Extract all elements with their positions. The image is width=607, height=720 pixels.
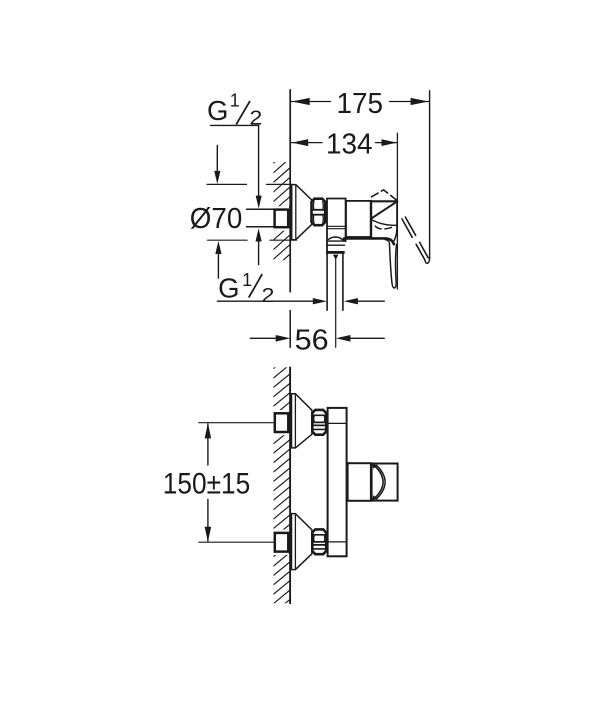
upper inlet square fitting: [275, 413, 289, 432]
white margin around inlet square: [273, 206, 289, 231]
dimension 56: [250, 337, 277, 339]
dashed cap (raised position): [372, 190, 399, 201]
wall hatching (bottom view): [273, 354, 292, 632]
cartridge column (body section behind main body): [326, 199, 328, 254]
handle cap (solid, lever down): [371, 200, 397, 202]
upper escutcheon cone: [292, 394, 312, 448]
dimension 150±15 arrows: [207, 424, 209, 465]
dimension 134: [291, 142, 322, 144]
svg-text:Ø70: Ø70: [190, 203, 243, 235]
label G1/2 (lower, shower outlet thread) leader with arrow: [217, 300, 313, 302]
lower escutcheon cone: [292, 514, 312, 570]
upper hex nut: [312, 410, 326, 435]
outlet dome transition: [328, 237, 344, 241]
white margins around inlet squares (bottom view): [273, 410, 289, 435]
wall face line / extension line for 175,134,56: [289, 90, 291, 292]
lower inlet square fitting: [275, 533, 289, 552]
dashed blade tip hook: [425, 258, 430, 263]
dimension 150±15 extension lines: [199, 422, 274, 424]
main body (top view): [346, 201, 371, 237]
outlet flange: [327, 240, 345, 242]
svg-text:56: 56: [295, 324, 329, 356]
escutcheon cone (top view): [292, 185, 312, 240]
svg-text:150±15: 150±15: [163, 468, 251, 501]
svg-text:G: G: [207, 95, 228, 126]
opposing arrow at outlet pipe right wall: [356, 300, 384, 302]
G1/2 supply dimension arrow (up, under pipe): [258, 240, 260, 265]
wall face line (bottom view): [289, 367, 291, 603]
inlet square fitting on wall: [275, 210, 289, 228]
svg-text:2: 2: [262, 284, 275, 307]
svg-text:134: 134: [326, 128, 373, 160]
lever neck (solid): [394, 225, 397, 240]
svg-text:2: 2: [249, 107, 262, 130]
dashed lever blade (raised position): [402, 219, 425, 260]
label Ø70 extension lines: [207, 183, 247, 185]
wall hatching (top view): [273, 148, 292, 299]
dimension 175: [291, 101, 331, 103]
valve body (bottom view): [348, 463, 371, 501]
Ø70 dimension arrows (outside): [216, 146, 218, 173]
svg-text:G: G: [218, 273, 239, 304]
hex nut (top view): [312, 199, 326, 226]
lower hex nut: [312, 529, 326, 554]
label G1/2 (top, supply thread) with bent leader: [211, 124, 259, 126]
lever bar under body: [344, 238, 394, 244]
outlet pipe (G1/2 shower connection): [326, 254, 328, 310]
outlet pipe center line with flow arrow: [335, 258, 337, 347]
supply pipe (G1/2 inlet nipple): [247, 208, 275, 210]
handle cap (bottom view): [372, 464, 398, 501]
lever blade (solid, hanging down): [389, 243, 396, 288]
svg-text:175: 175: [337, 88, 384, 120]
mounting plate (bottom view): [328, 408, 347, 556]
svg-text:1: 1: [230, 91, 240, 111]
svg-text:1: 1: [242, 270, 252, 290]
